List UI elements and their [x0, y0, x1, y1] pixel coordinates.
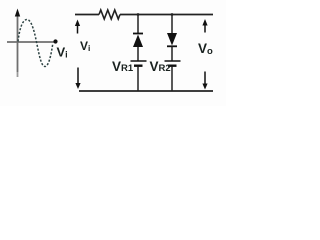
input terminal arrow (down, -)	[75, 68, 80, 90]
diode D1 (cathode up): cathode bar	[133, 33, 143, 35]
diode D1 triangle (pointing up)	[133, 35, 143, 48]
wire: branch 1 from top rail to diode D1	[137, 15, 139, 35]
input waveform graph: vertical axis	[17, 15, 19, 72]
wire: battery VR2 to bottom rail	[171, 67, 173, 92]
diode D2 triangle (pointing down)	[167, 33, 177, 46]
input waveform graph: horizontal axis	[7, 41, 54, 43]
battery VR1: long plate	[131, 60, 147, 62]
wire: bottom rail	[79, 90, 213, 92]
input terminal arrow (up, +)	[75, 20, 80, 34]
wire: top rail left segment	[75, 14, 99, 16]
wire: top rail right segment	[120, 14, 213, 16]
wire: battery VR1 to bottom rail	[137, 67, 139, 92]
battery VR2: short plate	[168, 64, 177, 66]
input waveform graph: horizontal axis end dot	[53, 39, 57, 43]
input waveform graph: vertical axis arrowhead	[15, 9, 20, 17]
input sine wave (dashed)	[18, 20, 53, 67]
node: junction branch 1 on top rail	[137, 13, 140, 16]
resistor R (series)	[99, 10, 120, 19]
wire: diode D2 to battery VR2	[171, 46, 173, 60]
diode D2 cathode bar (bottom)	[167, 45, 177, 47]
wire: branch 2 from top rail to diode D2	[171, 15, 173, 34]
wire: diode D1 to battery VR1	[137, 47, 139, 61]
node: junction branch 2 on top rail	[171, 13, 174, 16]
battery VR2: long plate	[165, 60, 181, 62]
output terminal arrow (down, -)	[202, 72, 207, 90]
output terminal arrow (up, +)	[202, 19, 207, 33]
battery VR1: short plate	[134, 64, 143, 66]
